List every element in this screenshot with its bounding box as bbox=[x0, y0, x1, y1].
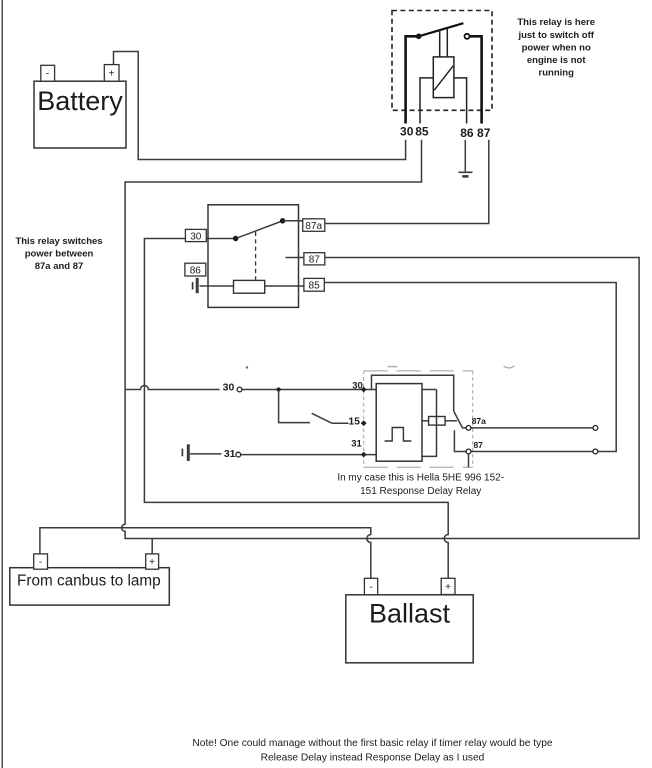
relay U1 coil side wire to pin 86 bbox=[454, 78, 467, 124]
terminal circle timer 31 bbox=[236, 452, 241, 457]
timer 87a output wire bbox=[471, 427, 593, 429]
stray speck dot bbox=[246, 366, 248, 368]
relay K1 box bbox=[208, 205, 299, 308]
svg-text:87a: 87a bbox=[305, 221, 322, 232]
relay U1 wire pin 87 bbox=[470, 36, 482, 123]
wire battery plus to relay U1 pin 30 bbox=[114, 52, 406, 160]
svg-text:31: 31 bbox=[224, 448, 236, 460]
svg-text:-: - bbox=[369, 582, 372, 593]
ground symbol timer 31 bbox=[182, 444, 188, 461]
wire timer 30 row from node at x125 bbox=[125, 386, 219, 390]
timer 87 output wire bbox=[471, 451, 593, 453]
svg-text:15: 15 bbox=[348, 415, 360, 427]
canbus box bbox=[10, 568, 170, 605]
timer changeover arm bbox=[454, 411, 466, 428]
svg-text:-: - bbox=[46, 69, 49, 80]
svg-text:power when no: power when no bbox=[522, 42, 591, 53]
ballast plus terminal bbox=[441, 578, 455, 594]
svg-text:power between: power between bbox=[25, 249, 94, 260]
ballast minus terminal bbox=[364, 578, 377, 594]
svg-text:86: 86 bbox=[460, 126, 474, 140]
wire switch arm to timer 15 terminal bbox=[332, 422, 364, 424]
ballast box bbox=[346, 595, 473, 663]
svg-text:87a: 87a bbox=[472, 416, 486, 426]
relay U1 fixed contact circle bbox=[465, 34, 470, 39]
relay K1 pivot dot bbox=[233, 236, 238, 241]
timer 30 feed right of inner box through coil bbox=[422, 390, 437, 457]
wire relay U1 pin 85 to node line B to relay K1 pin 87 bbox=[122, 140, 640, 539]
svg-text:87: 87 bbox=[477, 126, 491, 140]
timer dashed outline left bbox=[363, 371, 365, 468]
open end circle 87a wire bbox=[593, 426, 598, 431]
svg-text:30: 30 bbox=[223, 382, 235, 394]
svg-text:+: + bbox=[149, 557, 155, 568]
relay U1 coil box bbox=[433, 57, 454, 98]
switch arm timer 15 bbox=[312, 413, 332, 423]
wire relay K1 pin 85 to timer 87 wire bbox=[324, 283, 616, 452]
svg-text:30: 30 bbox=[190, 231, 202, 242]
relay K1 87 stub bbox=[286, 257, 304, 259]
svg-text:-: - bbox=[39, 557, 42, 568]
svg-text:Release Delay instead Response: Release Delay instead Response Delay as … bbox=[261, 752, 485, 763]
svg-text:31: 31 bbox=[351, 439, 362, 450]
timer inner module box bbox=[376, 384, 422, 462]
svg-text:running: running bbox=[539, 68, 575, 79]
svg-text:86: 86 bbox=[190, 265, 202, 276]
canbus plus terminal bbox=[146, 554, 159, 569]
svg-text:Note! One could manage without: Note! One could manage without the first… bbox=[192, 738, 552, 749]
svg-text:+: + bbox=[445, 582, 451, 593]
svg-text:87: 87 bbox=[473, 440, 483, 450]
relay K1 dashed actuator line bbox=[255, 232, 257, 280]
relay K1 wire 30 to pivot bbox=[206, 238, 235, 240]
timer coil K2 box bbox=[429, 417, 446, 426]
junction dot timer 30 row bbox=[277, 387, 281, 391]
terminal diamond timer 30 bbox=[361, 387, 367, 393]
svg-text:87: 87 bbox=[309, 255, 321, 266]
relay U1 switch arm bbox=[419, 23, 464, 36]
relay K1 terminal box 30 bbox=[185, 229, 206, 241]
terminal diamond timer 15 bbox=[361, 420, 367, 426]
relay U1 common wire pin 30 bbox=[406, 36, 417, 123]
timer internal top link 30 to changeover bbox=[372, 375, 454, 411]
svg-text:Battery: Battery bbox=[37, 86, 123, 116]
terminal circle timer 87 bbox=[466, 449, 471, 454]
svg-text:In my case this is Hella 5HE 9: In my case this is Hella 5HE 996 152- bbox=[337, 473, 504, 484]
relay K1 87a contact dot bbox=[280, 218, 285, 223]
battery plus terminal bbox=[104, 65, 119, 82]
terminal diamond timer 31 bbox=[361, 452, 367, 458]
note text relay K1 bbox=[15, 236, 102, 272]
wire relay U1 pin 86 to ground bbox=[464, 140, 466, 172]
terminal circle timer 87a bbox=[466, 426, 471, 431]
svg-text:Ballast: Ballast bbox=[369, 599, 451, 629]
svg-text:87a and 87: 87a and 87 bbox=[35, 261, 84, 272]
svg-text:30: 30 bbox=[352, 380, 363, 391]
svg-text:This relay switches: This relay switches bbox=[15, 236, 102, 247]
note text relay U1 bbox=[517, 17, 595, 78]
relay K1 coil wire left with supply symbol bbox=[200, 285, 234, 287]
svg-text:151 Response Delay Relay: 151 Response Delay Relay bbox=[360, 486, 481, 497]
svg-text:engine is not: engine is not bbox=[527, 55, 586, 66]
wire timer 30 row circle to timer box bbox=[242, 389, 376, 391]
wire timer 31 row circle to timer box bbox=[241, 454, 377, 456]
wire canbus plus tap to line B bbox=[151, 539, 153, 554]
canbus minus terminal bbox=[34, 554, 48, 569]
svg-text:30: 30 bbox=[400, 124, 414, 138]
relay U1 pivot dot bbox=[416, 34, 422, 40]
relay K1 terminal box 87a bbox=[303, 219, 325, 232]
relay K1 terminal box 86 bbox=[185, 263, 206, 276]
svg-text:85: 85 bbox=[309, 281, 321, 292]
timer coil K2 right link bbox=[445, 420, 457, 422]
stub below timer 87 circle bbox=[468, 454, 470, 467]
timer dashed outline bottom bbox=[364, 466, 473, 468]
timer 87 fixed contact bracket bbox=[454, 430, 466, 451]
ground symbol under relay U1 pin 86 bbox=[458, 172, 472, 176]
terminal circle timer 30 bbox=[237, 387, 242, 392]
relay K1 coil wire right bbox=[265, 285, 304, 287]
relay K1 wire to 87a box bbox=[283, 220, 303, 222]
wire line A canbus minus to ballast minus bbox=[40, 528, 371, 579]
relay K1 switch arm bbox=[236, 221, 283, 239]
wire timer 15 branch with switch bbox=[279, 390, 310, 423]
pulse symbol inside timer bbox=[385, 428, 412, 442]
scan speck dash above timer bbox=[388, 366, 398, 368]
svg-text:+: + bbox=[109, 69, 115, 80]
battery box bbox=[34, 81, 126, 148]
relay K1 coil box bbox=[234, 280, 265, 293]
relay U1 armature links bbox=[439, 31, 441, 57]
svg-text:85: 85 bbox=[415, 124, 429, 138]
relay U1 coil side wire to pin 85 bbox=[420, 78, 433, 124]
svg-text:just to switch off: just to switch off bbox=[517, 30, 594, 41]
timer dashed outline top bbox=[364, 370, 473, 372]
scan speck curve above timer bbox=[504, 366, 515, 368]
svg-text:This relay is here: This relay is here bbox=[517, 17, 595, 28]
svg-text:From canbus to lamp: From canbus to lamp bbox=[17, 573, 161, 590]
relay U1 dashed box bbox=[392, 11, 492, 111]
battery minus terminal bbox=[41, 65, 55, 81]
relay K1 terminal box 87 bbox=[304, 253, 325, 265]
relay U1 coil diagonal bbox=[434, 66, 453, 90]
open end circle 87 wire bbox=[593, 449, 598, 454]
left edge scan border line bbox=[1, 0, 3, 768]
timer coil K2 left link bbox=[422, 420, 429, 422]
relay K1 terminal box 85 bbox=[304, 278, 324, 291]
wire relay K1 pin 30 to ballast plus bbox=[144, 239, 448, 579]
wire timer 31 row left bbox=[190, 453, 222, 455]
timer dashed outline right bbox=[472, 371, 474, 468]
wire relay U1 pin 87 to relay K1 terminal 87a bbox=[325, 140, 489, 224]
